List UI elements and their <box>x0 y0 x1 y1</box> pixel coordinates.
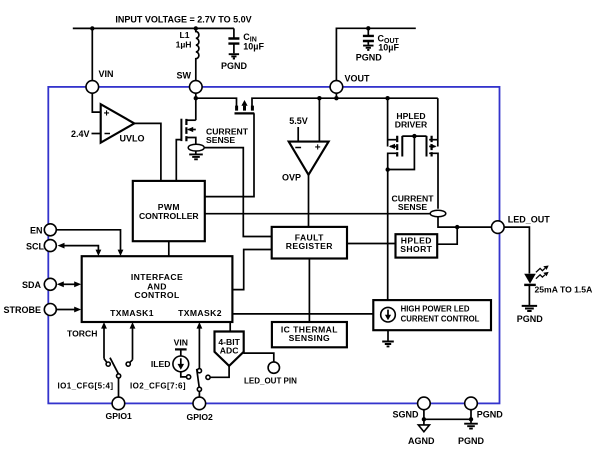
wire: fault register to IC thermal sensing <box>308 259 310 323</box>
svg-text:PGND: PGND <box>356 53 383 63</box>
wire: SW pin to switch node <box>195 93 197 120</box>
current sense loop (right) <box>430 210 446 217</box>
wire: VIN pin to UVLO plus input <box>92 93 100 112</box>
junction: COUT top <box>366 26 370 30</box>
svg-text:SGND: SGND <box>392 409 419 419</box>
block HPLED SHORT <box>396 234 438 257</box>
svg-text:PGND: PGND <box>477 409 504 419</box>
wire: PWM to interface <box>168 241 170 256</box>
wire: common gate of Q3 Q4 <box>402 135 426 137</box>
wire: interface to HP LED current control <box>233 313 373 315</box>
wire: Q1 gate to PWM controller <box>176 140 181 180</box>
junction: VOUT tap <box>334 96 338 100</box>
svg-text:SCL: SCL <box>26 241 45 251</box>
pin GPIO1 <box>112 397 125 410</box>
wire: VOUT rail <box>336 28 415 80</box>
capacitor CIN <box>233 28 235 38</box>
pin LED_OUT PIN (internal) <box>268 362 279 373</box>
svg-text:DRIVER: DRIVER <box>395 120 428 130</box>
svg-text:TXMASK2: TXMASK2 <box>178 308 222 318</box>
junction: switch node <box>194 96 198 100</box>
wire: interface to ADC <box>229 322 231 332</box>
ground: AGND triangle <box>423 419 425 424</box>
svg-text:SENSE: SENSE <box>398 202 427 212</box>
svg-text:EN: EN <box>30 225 43 235</box>
block PWM CONTROLLER <box>133 181 205 241</box>
wire: TXMASK1 line to interface <box>132 325 134 360</box>
svg-text:INPUT VOLTAGE = 2.7V TO 5.0V: INPUT VOLTAGE = 2.7V TO 5.0V <box>115 14 251 24</box>
wire: Q2 gate to PWM controller <box>205 113 254 196</box>
svg-text:PGND: PGND <box>517 314 544 324</box>
ground: Q1 source <box>189 154 203 159</box>
wire: Q4 source to LED_OUT <box>438 217 492 227</box>
wire: TORCH input to interface <box>103 325 105 359</box>
svg-text:GPIO2: GPIO2 <box>187 412 213 422</box>
pin LED_OUT <box>492 221 505 234</box>
junction: L1 top <box>194 26 198 30</box>
wire: current control to ground <box>387 330 389 341</box>
pin PGND (bottom) <box>465 397 478 410</box>
transistor Q1 NMOS switch <box>187 119 195 121</box>
svg-text:25mA TO 1.5A: 25mA TO 1.5A <box>535 284 593 294</box>
block HIGH POWER LED CURRENT CONTROL <box>373 300 491 330</box>
wire: ADC to GPIO2 contact <box>210 366 229 377</box>
transistor Q3 HPLED driver left <box>387 98 389 146</box>
block IC THERMAL SENSING <box>272 322 347 347</box>
wire: current sense to fault register <box>204 148 272 237</box>
current sense loop (left) <box>188 144 204 151</box>
wire: SGND to PGND tie <box>424 410 471 420</box>
op-amp UVLO comparator <box>101 104 135 143</box>
op-amp OVP comparator <box>289 142 329 175</box>
svg-text:ADC: ADC <box>220 345 239 355</box>
junction: Q3 source / gate drive node <box>386 167 390 171</box>
pin SCL <box>44 240 56 252</box>
block 4-BIT ADC <box>215 332 244 366</box>
IC boundary box <box>48 87 499 404</box>
wire: LED cathode to PGND <box>528 286 530 305</box>
junction: HPLED driver tap <box>385 96 389 100</box>
svg-text:SHORT: SHORT <box>400 244 432 254</box>
switch GPIO1 select arm <box>110 358 119 375</box>
svg-text:VOUT: VOUT <box>345 73 371 83</box>
junction: VIN rail <box>90 26 94 30</box>
ground: CIN PGND <box>229 54 239 58</box>
pin EN <box>44 224 56 236</box>
wire: PWM to HP current sense loop <box>205 213 430 215</box>
wire: EN to interface <box>56 230 120 253</box>
svg-text:VIN: VIN <box>99 69 114 79</box>
LED D1 <box>524 274 536 284</box>
junction: LED_OUT net <box>455 225 459 229</box>
pin SGND <box>418 397 431 410</box>
LED light arrows <box>536 266 549 273</box>
pin VOUT <box>330 81 343 94</box>
block FAULT REGISTER <box>272 227 347 259</box>
wire: OVP plus input from VOUT rail <box>318 98 320 141</box>
wire: VIN drop <box>91 28 93 80</box>
wire: fault register to interface <box>233 250 271 290</box>
svg-text:PGND: PGND <box>221 61 248 71</box>
svg-text:1µH: 1µH <box>176 40 192 50</box>
svg-text:GPIO1: GPIO1 <box>106 411 132 421</box>
svg-text:CONTROL: CONTROL <box>134 290 179 300</box>
svg-text:IO2_CFG[7:6]: IO2_CFG[7:6] <box>130 382 186 391</box>
block INTERFACE AND CONTROL <box>82 256 233 322</box>
svg-text:UVLO: UVLO <box>120 134 145 144</box>
switch GPIO2 select arm <box>197 369 200 387</box>
ground: LED PGND <box>522 306 537 311</box>
wire: GPIO2 to switch <box>198 391 200 397</box>
svg-text:2.4V: 2.4V <box>71 129 90 139</box>
svg-text:STROBE: STROBE <box>3 305 41 315</box>
current source ILED <box>173 356 189 372</box>
wire: TXMASK2 line to interface <box>198 325 200 368</box>
wire: HPLED short sense tap <box>438 227 457 244</box>
svg-text:CONTROLLER: CONTROLLER <box>139 211 199 221</box>
pin SW <box>190 81 203 94</box>
svg-text:REGISTER: REGISTER <box>286 241 334 251</box>
wire: ADC to LED_OUT PIN <box>243 353 273 362</box>
wire: STROBE to interface <box>56 309 75 311</box>
svg-text:TORCH: TORCH <box>67 329 97 339</box>
pin GPIO2 <box>193 397 206 410</box>
wire: 5.5V to OVP minus input <box>297 127 299 141</box>
junction: OVP sense tap <box>317 96 321 100</box>
transistor Q4 HPLED driver right <box>437 98 439 146</box>
wire: SCL to interface <box>64 246 98 253</box>
current source symbol <box>381 307 396 322</box>
wire: UVLO output to PWM controller <box>134 123 161 180</box>
svg-text:SENSE: SENSE <box>206 135 235 145</box>
transistor Q2 synchronous switch <box>237 106 253 111</box>
wire: 2.4V stub to minus input <box>92 133 101 135</box>
node: TXMASK1 select contact a <box>104 359 107 363</box>
pin VIN <box>86 81 99 94</box>
svg-text:AGND: AGND <box>408 436 435 446</box>
svg-text:CURRENT CONTROL: CURRENT CONTROL <box>401 314 480 323</box>
svg-text:TXMASK1: TXMASK1 <box>110 308 154 318</box>
capacitor COUT <box>367 28 369 36</box>
svg-text:SW: SW <box>177 70 192 80</box>
inductor L1 <box>196 28 199 80</box>
wire: ILED to GPIO2 contact <box>181 372 186 377</box>
svg-text:+: + <box>315 142 321 153</box>
wire: LED_OUT to LED D1 <box>504 227 529 273</box>
svg-text:10µF: 10µF <box>243 42 264 52</box>
svg-text:LED_OUT: LED_OUT <box>508 215 551 225</box>
wire: GPIO1 to switch <box>118 378 120 397</box>
wire: node to HP LED current control <box>387 170 389 301</box>
pin STROBE <box>44 304 56 316</box>
ground: current control <box>382 342 394 347</box>
svg-text:HIGH POWER LED: HIGH POWER LED <box>401 305 470 314</box>
wire: OVP output to fault register <box>308 175 310 226</box>
svg-text:OVP: OVP <box>282 172 301 182</box>
wire: input rail <box>73 27 234 29</box>
svg-text:ILED: ILED <box>151 359 171 369</box>
wire: fault register to HPLED short <box>347 243 395 245</box>
svg-text:SDA: SDA <box>22 280 42 290</box>
ground: PGND bars <box>470 419 472 423</box>
pin SDA <box>44 278 56 290</box>
svg-text:VIN: VIN <box>174 338 188 348</box>
svg-text:PGND: PGND <box>458 436 485 446</box>
wire: SDA bidirectional to interface <box>63 283 76 285</box>
wire: rail SW to Q2 <box>196 98 237 106</box>
node: TXMASK1 select contact b <box>130 360 133 363</box>
svg-text:LED_OUT PIN: LED_OUT PIN <box>244 376 297 385</box>
svg-text:SENSING: SENSING <box>289 333 330 343</box>
svg-text:5.5V: 5.5V <box>289 116 308 126</box>
svg-text:IO1_CFG[5:4]: IO1_CFG[5:4] <box>58 382 114 391</box>
ground: COUT PGND <box>363 46 373 50</box>
svg-text:+: + <box>104 109 110 120</box>
wire: rail Q2 to VOUT and HPLED driver <box>252 98 438 106</box>
wire: VOUT pin stub <box>335 93 337 98</box>
svg-text:10µF: 10µF <box>378 43 399 53</box>
